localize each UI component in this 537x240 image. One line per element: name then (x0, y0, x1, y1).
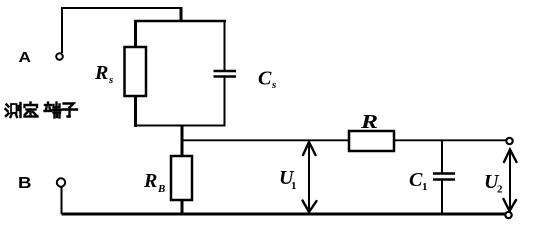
terminal A (56, 53, 63, 60)
svg-text:C: C (409, 169, 423, 191)
output terminal top right (506, 138, 512, 144)
svg-text:B: B (18, 175, 32, 192)
svg-text:R: R (94, 62, 108, 84)
terminal B (57, 178, 65, 186)
capacitor Cs (214, 71, 237, 77)
wire R right to output terminal (394, 139, 507, 141)
svg-text:s: s (108, 74, 113, 86)
svg-text:A: A (19, 49, 32, 66)
wire top bar of Rs||Cs parallel section (134, 20, 226, 23)
wire mid horizontal node to R left (181, 139, 349, 141)
output terminal bottom right (505, 212, 511, 218)
wire Rs branch bottom (134, 96, 137, 127)
wire RB bottom to ground rail (181, 200, 184, 215)
wire bottom bar of Rs||Cs parallel section (134, 125, 226, 127)
voltage arrow U1 (double headed) (303, 142, 317, 213)
svg-text:R: R (360, 111, 378, 133)
resistor Rs (125, 47, 147, 96)
svg-text:B: B (157, 183, 165, 195)
svg-text:s: s (271, 79, 276, 91)
wire Rs branch top (134, 21, 137, 48)
resistor RB (171, 156, 192, 200)
端 (45, 103, 61, 118)
resistor R (349, 131, 394, 151)
wire Cs branch top (224, 21, 226, 70)
svg-text:1: 1 (291, 180, 297, 192)
svg-text:C: C (258, 68, 272, 90)
svg-text:1: 1 (422, 181, 428, 193)
voltage arrow U2 (double headed) (504, 149, 517, 211)
wire from terminal B down to rail (61, 186, 63, 214)
wire Cs branch bottom (224, 78, 226, 127)
子 (63, 104, 78, 117)
wire vertical drop into parallel network top (180, 7, 183, 22)
wire C1 bottom lead (441, 180, 443, 214)
定 (25, 103, 38, 117)
测 (6, 103, 21, 117)
wire bottom ground rail (62, 213, 507, 216)
capacitor C1 (433, 174, 455, 180)
wire C1 top lead (441, 140, 443, 174)
svg-text:R: R (143, 170, 157, 192)
svg-text:2: 2 (497, 184, 503, 196)
label 测定端子 (measuring terminals, drawn strokes) (6, 103, 78, 118)
wire center vertical to RB (181, 126, 184, 158)
wire from terminal A up and to the right (62, 8, 181, 53)
